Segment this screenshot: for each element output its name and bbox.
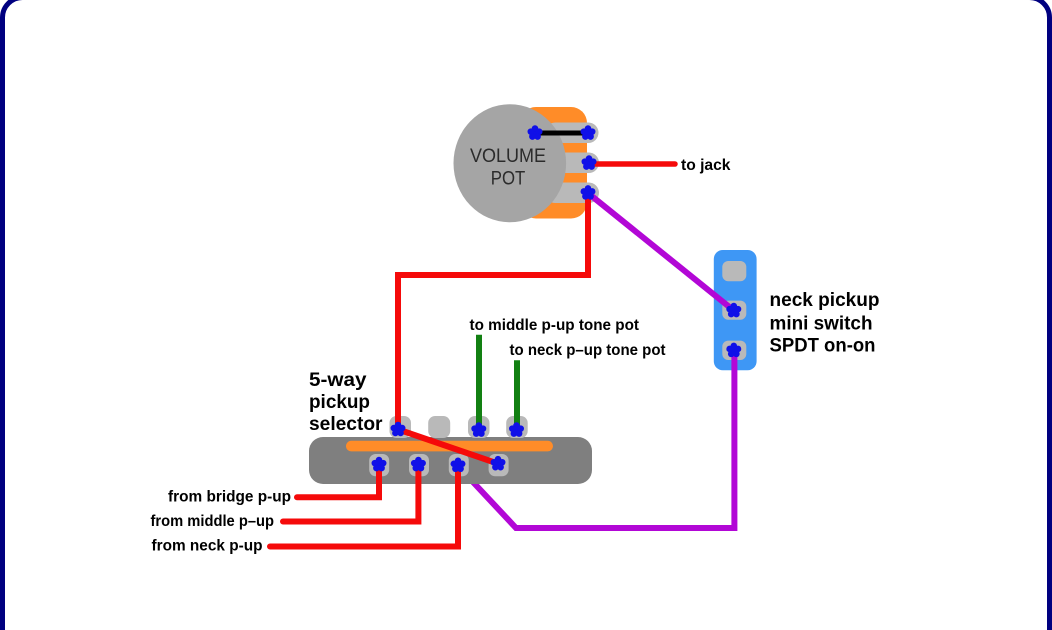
solder node switch middle: [726, 303, 741, 318]
mini switch pad middle: [722, 301, 746, 320]
solder node pot casing: [528, 125, 543, 140]
wire: purple switch bottom to selector tab C: [459, 351, 735, 528]
mini switch body: [714, 250, 757, 370]
selector upper tab 4: [506, 416, 528, 438]
5-way selector body: [309, 437, 592, 484]
svg-text:to middle p-up tone pot: to middle p-up tone pot: [470, 317, 640, 334]
svg-text:from neck p-up: from neck p-up: [152, 538, 263, 555]
solder node selector tab3: [471, 422, 486, 437]
svg-text:pickup: pickup: [309, 392, 370, 413]
wire: red from middle p-up: [283, 463, 418, 522]
wire: red from neck p-up: [270, 463, 458, 547]
svg-text:to neck p–up tone pot: to neck p–up tone pot: [510, 342, 667, 359]
solder node selector tabD: [491, 456, 506, 471]
wire: red diagonal tab1 to tabD: [398, 429, 498, 463]
selector upper tab 2: [428, 416, 450, 438]
solder node selector tabB: [411, 457, 426, 472]
selector orange wafer: [346, 441, 553, 452]
volume pot lug 1: [545, 123, 599, 144]
selector upper tab 3: [468, 416, 490, 438]
wire: purple lug3 to mini switch middle: [589, 194, 734, 311]
solder node selector tab4: [509, 422, 524, 437]
svg-text:to jack: to jack: [681, 157, 731, 174]
selector lower tab C: [449, 454, 469, 476]
solder node selector tabC: [451, 458, 466, 473]
solder node pot lug3: [581, 185, 596, 200]
selector lower tab B: [409, 454, 429, 476]
svg-text:from middle p–up: from middle p–up: [151, 513, 275, 530]
wire: red to jack: [592, 161, 675, 167]
wire: red from bridge p-up: [297, 463, 379, 497]
volume pot body (orange base): [520, 107, 587, 219]
solder node selector tabA: [372, 457, 387, 472]
wire: red lug3 to selector tab1: [398, 195, 588, 426]
svg-text:mini switch: mini switch: [770, 314, 873, 335]
solder node selector tab1: [391, 422, 406, 437]
svg-text:VOLUME: VOLUME: [470, 146, 546, 167]
volume pot can: [454, 104, 567, 222]
selector lower tab A: [369, 454, 389, 476]
svg-text:5-way: 5-way: [309, 370, 367, 391]
mini switch pad bottom: [722, 341, 746, 360]
svg-text:SPDT on-on: SPDT on-on: [770, 335, 876, 356]
svg-text:from bridge p-up: from bridge p-up: [168, 489, 291, 506]
volume pot lug 2: [545, 153, 599, 174]
svg-text:POT: POT: [491, 168, 526, 189]
svg-text:neck pickup: neck pickup: [770, 290, 880, 311]
wire: green to neck tone pot: [514, 360, 520, 428]
svg-text:selector: selector: [309, 414, 383, 435]
wire: black jumper casing to lug1: [535, 131, 588, 136]
mini switch pad top: [722, 261, 746, 281]
volume pot lug 3: [545, 183, 599, 204]
solder node pot lug2: [582, 155, 597, 170]
solder node pot lug1: [581, 125, 596, 140]
solder node switch bottom: [726, 343, 741, 358]
selector lower tab D: [489, 454, 509, 476]
selector upper tab 1: [390, 416, 412, 438]
wire: green to middle tone pot: [476, 335, 482, 428]
